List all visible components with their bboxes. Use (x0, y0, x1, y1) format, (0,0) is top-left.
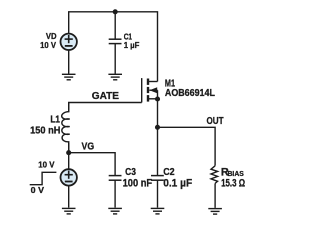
wire source-body vertical down to C2 (157, 90, 159, 175)
wire C1 top stub (114, 12, 116, 39)
svg-text:0 V: 0 V (31, 185, 45, 195)
body lead with arrow (149, 89, 157, 91)
svg-text:OUT: OUT (207, 116, 225, 127)
ground under VD (62, 74, 76, 80)
wire resistor to ground (214, 183, 216, 208)
voltage source VG pulse (60, 169, 76, 185)
wire C1 bottom to ground (114, 44, 116, 74)
capacitor C2 (151, 176, 164, 181)
voltage source VD (60, 34, 76, 50)
wire VG node to pulse source (68, 153, 70, 170)
wire pulse source to ground (68, 186, 70, 208)
ground under C3 (108, 208, 122, 214)
svg-text:GATE: GATE (92, 91, 119, 102)
svg-text:1 µF: 1 µF (124, 40, 140, 50)
svg-text:VG: VG (82, 142, 95, 153)
svg-text:C3: C3 (125, 167, 136, 178)
svg-text:0.1 µF: 0.1 µF (163, 178, 192, 190)
svg-text:100 nF: 100 nF (123, 178, 153, 190)
svg-text:C2: C2 (163, 167, 175, 178)
node junction dot VG (66, 150, 71, 155)
drain lead (149, 81, 158, 83)
node junction dot at OUT (155, 125, 160, 130)
resistor RBIAS (211, 166, 218, 184)
inductor L1 (62, 103, 70, 153)
svg-text:AOB66914L: AOB66914L (165, 88, 215, 99)
ground under C2 (151, 208, 165, 214)
transistor M1 nmos (142, 78, 158, 102)
wire GATE net to L1 (69, 103, 142, 113)
wire top rail from VD to drain (69, 12, 158, 82)
node junction dot at source (155, 96, 160, 101)
svg-text:10 V: 10 V (40, 40, 56, 50)
wire C2 bottom to ground (157, 180, 159, 207)
svg-text:L1: L1 (50, 115, 60, 126)
capacitor C1 (109, 39, 122, 43)
capacitor C3 (109, 176, 122, 181)
wire OUT net to resistor (158, 127, 216, 166)
wire VG node to C3 (69, 153, 115, 176)
svg-text:150 nH: 150 nH (30, 125, 60, 136)
ground under pulse source (62, 208, 76, 214)
svg-text:10 V: 10 V (38, 159, 54, 169)
svg-text:15.3 Ω: 15.3 Ω (221, 177, 245, 189)
wire VD bottom to ground (68, 50, 70, 74)
source lead (149, 98, 158, 100)
gate bar (141, 78, 143, 102)
ground under RBIAS (208, 209, 222, 215)
wire C3 bottom to ground (114, 180, 116, 207)
wire L1 to VG node (68, 143, 70, 153)
node junction dot at C1 / top rail (113, 9, 118, 14)
ground under C1 (108, 74, 122, 80)
pulse step symbol (30, 172, 57, 184)
channel dashes (147, 79, 149, 85)
